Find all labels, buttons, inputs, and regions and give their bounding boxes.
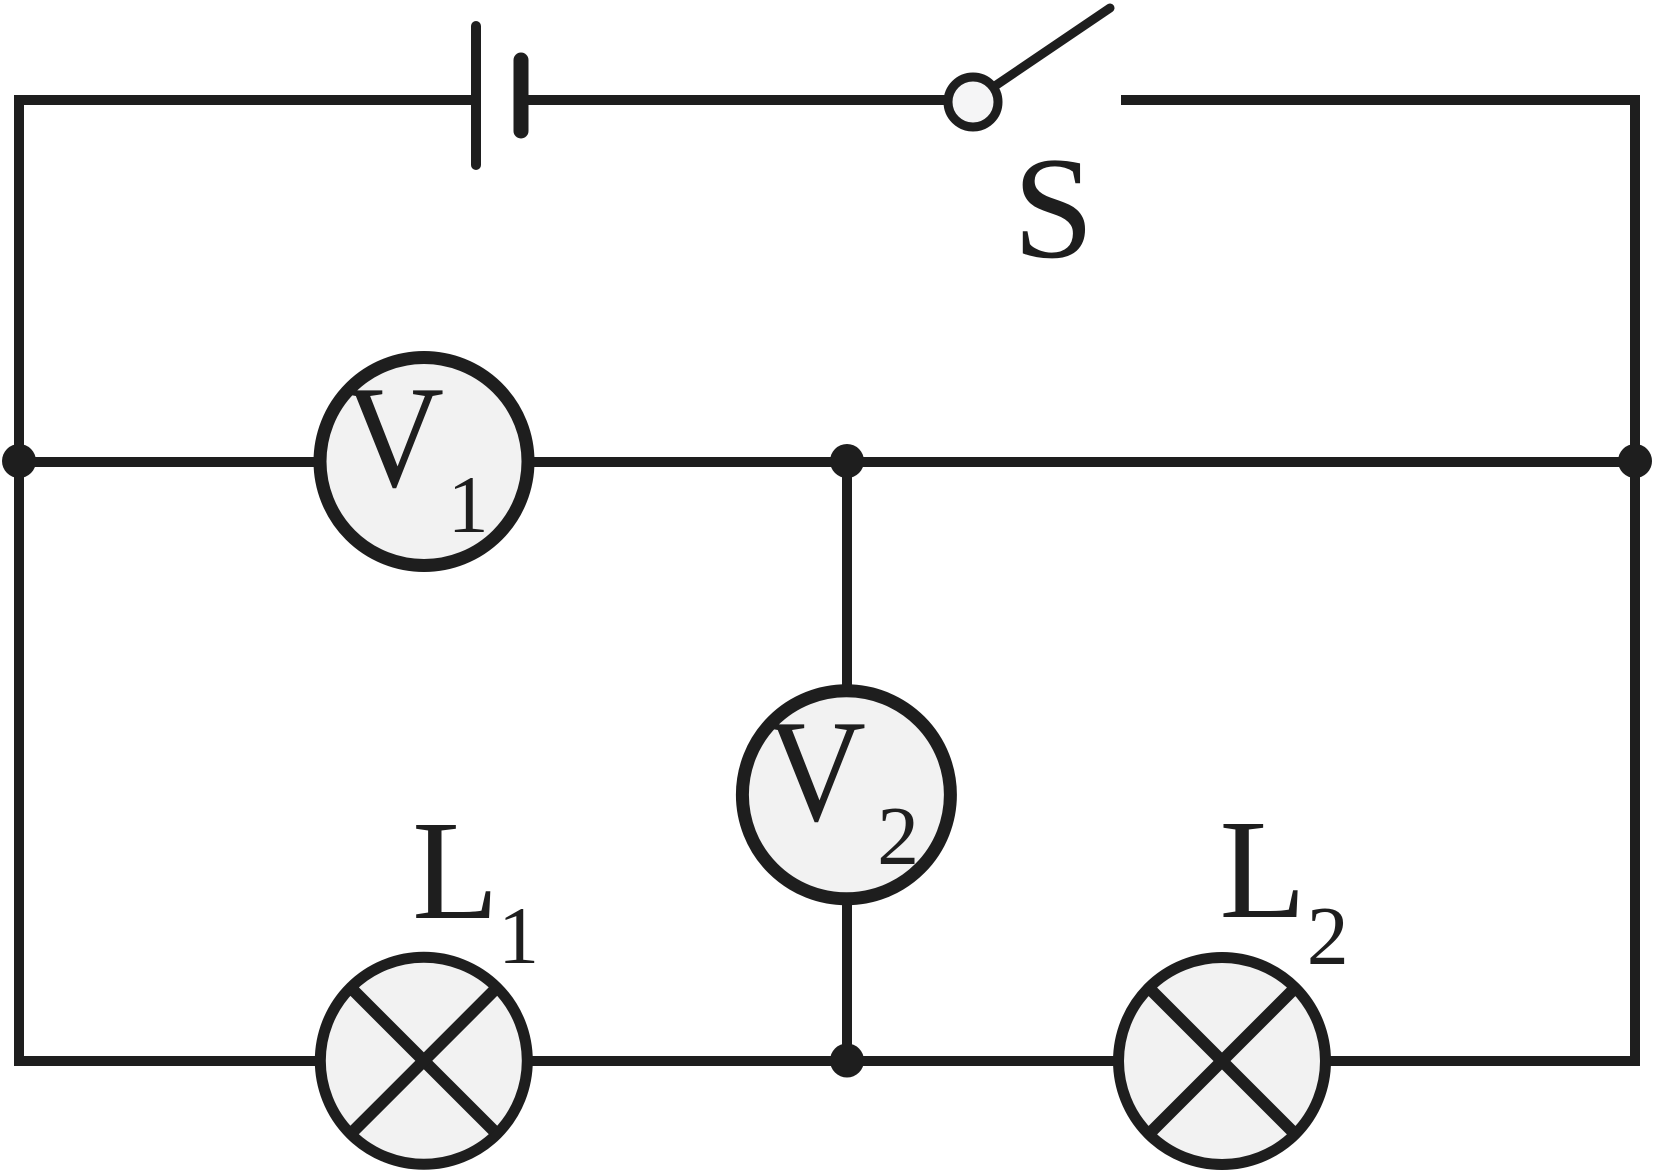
svg-text:V: V	[766, 690, 866, 852]
svg-text:2: 2	[1307, 890, 1349, 983]
svg-text:1: 1	[498, 890, 539, 981]
svg-text:2: 2	[877, 790, 919, 883]
svg-text:S: S	[1013, 127, 1094, 289]
svg-text:L: L	[412, 791, 499, 949]
svg-text:V: V	[344, 356, 444, 518]
svg-text:L: L	[1219, 790, 1306, 948]
svg-text:1: 1	[448, 459, 489, 550]
